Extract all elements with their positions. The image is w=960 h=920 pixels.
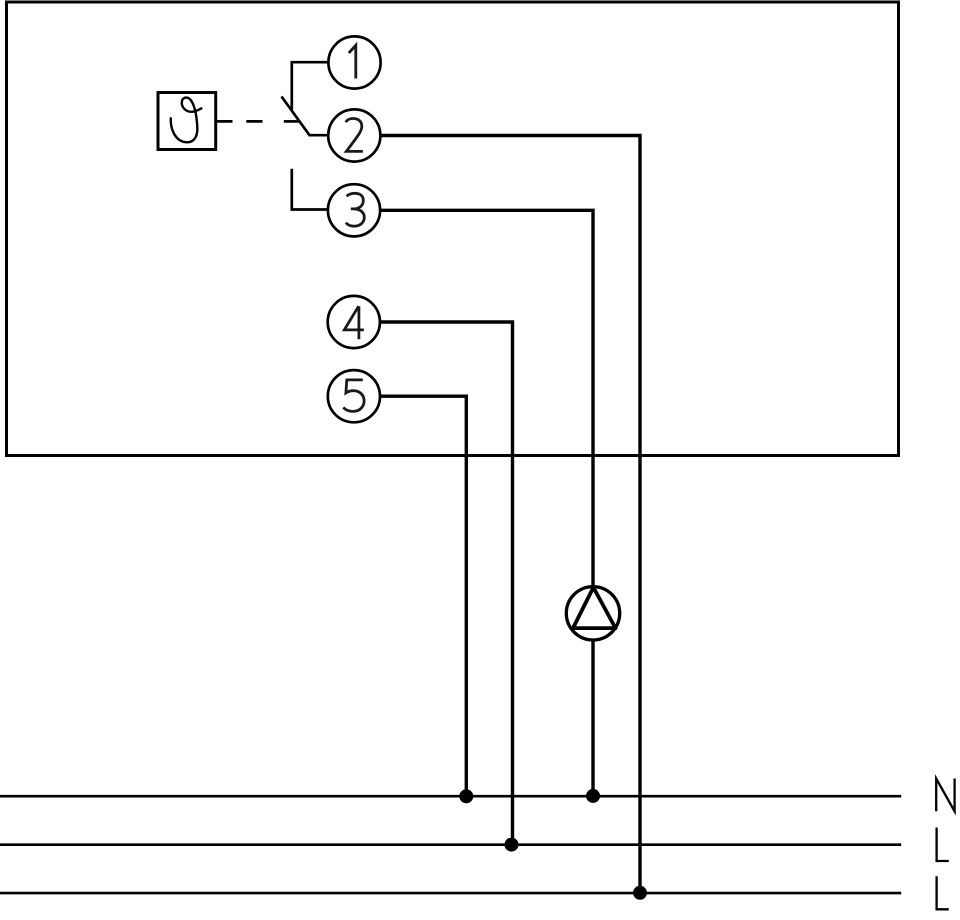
terminal 2 [328,109,380,161]
junction dot pump-N [586,789,600,803]
junction dot wire2-L [633,886,647,900]
switch contact to terminal 3 [292,169,328,210]
controller enclosure outline [7,2,899,456]
wire terminal 5 to N bus [380,396,466,795]
dashed actuation link [216,120,300,123]
wire pump to N bus [591,640,594,795]
L bus line (middle) [0,843,901,846]
label L middle [937,828,949,862]
wire terminal 4 to L bus [380,322,513,843]
N bus line [0,795,901,798]
terminal 1 [328,36,380,88]
label N [936,779,954,812]
wire terminal 1 to switch contact [292,62,329,109]
thermostat sensor box [158,93,216,150]
switch blade [282,97,329,136]
terminal 5 [328,370,380,422]
label L bottom [937,876,949,909]
wire terminal 3 to pump [380,210,593,586]
junction dot wire5-N [459,789,473,803]
terminal 4 [328,296,380,348]
L bus line (bottom) [0,892,901,895]
wire terminal 2 to L bus [380,136,640,892]
theta glyph [171,98,202,143]
terminal 3 [328,184,380,236]
junction dot wire4-L [505,838,519,852]
pump triangle [573,587,616,628]
pump M1 circle [566,587,619,640]
